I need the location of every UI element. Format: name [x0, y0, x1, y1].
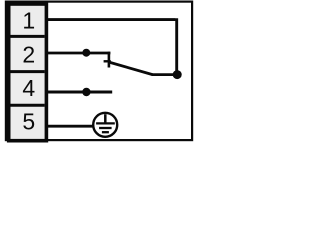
switch fixed terminal vertical [108, 52, 111, 68]
wire terminal 5 to earth [48, 125, 93, 128]
terminal block X1 [9, 4, 47, 141]
wire terminal 1 to right corner down to node [48, 18, 177, 74]
switch NC tick [104, 60, 111, 62]
wire terminal 2 horizontal [48, 52, 110, 55]
wire terminal 4 stub [48, 91, 112, 94]
svg-text:5: 5 [22, 109, 35, 135]
svg-text:2: 2 [22, 41, 35, 67]
terminal divider 4-5 [11, 104, 45, 107]
switch blade [109, 62, 153, 75]
node dot on wire 4 [82, 88, 90, 96]
earth bar long [96, 122, 115, 124]
earth stem [104, 114, 107, 123]
svg-text:1: 1 [22, 8, 35, 34]
wire blade to node [152, 73, 178, 76]
earth bar middle [99, 127, 112, 129]
junction node dot [173, 70, 182, 79]
node dot on wire 2 [82, 49, 90, 57]
drawing frame border [6, 2, 192, 141]
earth bar short [102, 131, 109, 133]
svg-text:4: 4 [22, 75, 35, 101]
protective earth circle [93, 113, 117, 137]
terminal divider 2-4 [11, 70, 45, 73]
terminal divider 1-2 [11, 35, 45, 38]
